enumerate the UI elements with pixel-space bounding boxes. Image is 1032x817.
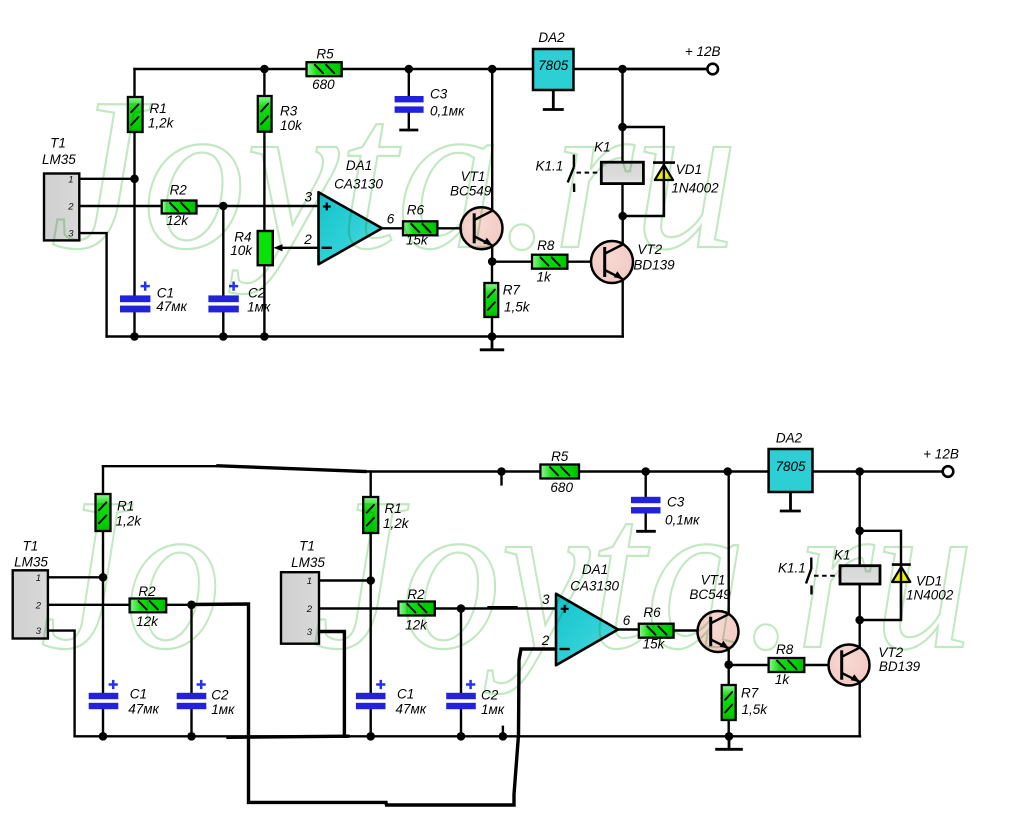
- wire stub below rail node: [500, 472, 502, 485]
- diode VD1 1N4002: [653, 163, 675, 216]
- wire C3b branch: [645, 472, 647, 532]
- DA1b minus input mark: [560, 648, 570, 650]
- node rail stub: [497, 467, 506, 476]
- wire thick ground rail overlay: [228, 736, 348, 737]
- resistor R8: [532, 255, 567, 269]
- transistor VT1 BC549: [461, 207, 503, 249]
- potentiometer R4: [258, 231, 273, 265]
- resistor R6: [403, 221, 437, 235]
- node R2 / C2: [219, 202, 228, 211]
- wire R3 to R4: [263, 132, 265, 231]
- capacitor C1: [120, 282, 150, 313]
- resistor R7: [484, 283, 498, 317]
- voltage regulator DA2 7805: [533, 49, 574, 90]
- resistor R8b: [769, 658, 805, 672]
- wire op-amp output to R6b: [618, 628, 639, 630]
- svg-text:1мк: 1мк: [481, 702, 505, 717]
- wire relay branch bottom: [859, 472, 861, 621]
- wire VT1 emitter down: [491, 247, 493, 262]
- wire R2 to op-amp pin3: [197, 205, 319, 207]
- wire R1 bottom to C1 and ground rail: [133, 132, 135, 337]
- node ground rail C1b: [366, 732, 375, 741]
- node ground rail C1: [130, 332, 139, 341]
- wire VT1b collector to rail: [728, 472, 730, 614]
- DA1 plus input mark: [323, 203, 331, 211]
- DA1 minus input mark: [322, 247, 332, 249]
- svg-text:1,5k: 1,5k: [742, 702, 769, 717]
- ground main bottom: [715, 748, 743, 751]
- wire C2a branch: [190, 605, 192, 737]
- svg-text:Joyta.ru: Joyta.ru: [312, 454, 974, 695]
- wire VT2 collector: [622, 216, 624, 244]
- relay coil K1b: [840, 566, 880, 584]
- node rail VT1b collector: [723, 467, 732, 476]
- sensor T1b LM35: [281, 572, 319, 644]
- wire R6b to VT1b base: [674, 629, 698, 631]
- transistor VT1b BC549: [698, 611, 739, 652]
- svg-text:T1: T1: [23, 539, 39, 554]
- wire stub above ground rail: [502, 727, 504, 737]
- svg-text:1мк: 1мк: [211, 702, 235, 717]
- capacitor C2: [208, 282, 238, 313]
- node relay top / diode bottom circuit: [855, 527, 864, 536]
- node VT1 emitter: [488, 257, 497, 266]
- svg-text:1мк: 1мк: [247, 299, 271, 314]
- wire C2 branch: [222, 206, 224, 337]
- wire T1a pin2 to R2a: [48, 604, 130, 606]
- R4 wiper arrowhead: [273, 244, 282, 251]
- node VT1b emitter: [724, 660, 733, 669]
- capacitor C3b: [631, 497, 661, 514]
- wire T1b pin1: [319, 579, 371, 581]
- transistor VT2 BD139: [591, 241, 633, 283]
- resistor R2b: [398, 602, 434, 616]
- resistor R1: [128, 97, 143, 132]
- node relay bottom / diode: [618, 212, 627, 221]
- wire VT1b emitter: [728, 650, 730, 665]
- wire R4 wiper to op-amp pin2: [280, 247, 319, 249]
- wire +12V rail bottom circuit: [364, 470, 943, 472]
- wire ground rail bottom: [107, 335, 623, 337]
- node R2a / C2a: [187, 601, 196, 610]
- relay coil K1: [601, 162, 643, 183]
- resistor R5: [307, 62, 342, 76]
- svg-text:47мк: 47мк: [396, 702, 427, 717]
- svg-text:DA2: DA2: [776, 431, 803, 446]
- wire top line from R1a: [103, 465, 222, 467]
- ground main: [480, 348, 504, 351]
- capacitor C2b: [446, 680, 476, 709]
- capacitor C1b: [356, 680, 386, 709]
- resistor R7b: [722, 685, 736, 720]
- relay contact K1.1b: [806, 558, 839, 595]
- resistor R2: [162, 201, 197, 214]
- wire main ground stub: [491, 337, 494, 350]
- wire +5V rail top: [135, 68, 708, 70]
- svg-text:47мк: 47мк: [128, 702, 159, 717]
- resistor R2a: [130, 599, 167, 613]
- wire T1b pin3 to ground rail (thick): [319, 632, 344, 737]
- +12V terminal bottom: [943, 466, 954, 477]
- node T1 pin1 / R1: [130, 175, 139, 184]
- node ground rail C2b: [457, 732, 466, 741]
- wire thick top overlay: [218, 466, 365, 472]
- wire VT1 collector to rail: [491, 69, 493, 210]
- wire main ground stub bottom: [728, 736, 731, 749]
- wire DA2b ground stub: [789, 492, 792, 511]
- node relay bottom / diode bottom circuit: [855, 616, 864, 625]
- wire emitter node to R8: [492, 261, 532, 263]
- wire R7 leads: [491, 262, 493, 337]
- wire ground rail bottom circuit: [75, 735, 860, 737]
- ground C3: [399, 129, 418, 132]
- wire T1a pin3 to ground rail: [48, 631, 75, 737]
- resistor R5b: [540, 465, 579, 479]
- wire R2b to op-amp pin3: [435, 607, 556, 609]
- resistor R1b: [363, 497, 378, 533]
- node ground rail C2a: [187, 732, 196, 741]
- capacitor C2a: [177, 680, 207, 709]
- op-amp DA1 CA3130: [319, 192, 383, 264]
- capacitor C1a: [89, 680, 119, 709]
- wire R4 bottom to ground rail: [263, 265, 265, 336]
- node rail relay branch bottom: [855, 467, 864, 476]
- wire C3 branch: [408, 69, 410, 130]
- node rail R3: [260, 65, 269, 74]
- wire T1b pin2 to R2b: [319, 607, 398, 609]
- wire DA2 ground stub: [552, 90, 555, 110]
- wire T1 pin2 to R2: [79, 205, 161, 207]
- wire R6 to VT1 base: [437, 227, 461, 229]
- node rail relay branch: [618, 65, 627, 74]
- op-amp DA1b CA3130: [556, 594, 618, 666]
- node ground rail R4: [260, 332, 269, 341]
- +12V terminal: [707, 64, 718, 75]
- svg-text:47мк: 47мк: [156, 299, 187, 314]
- wire T1 pin3 to ground rail: [79, 233, 106, 336]
- resistor R3: [258, 96, 272, 132]
- wire VT2b emitter to ground rail: [859, 683, 861, 736]
- wire R1a leads: [102, 466, 104, 736]
- ground DA2b: [780, 510, 801, 513]
- ground C3b: [636, 530, 656, 533]
- capacitor C3: [395, 96, 424, 113]
- wire R8 to VT2 base: [567, 261, 591, 263]
- wire diode VD1 branch: [623, 127, 664, 216]
- node ground rail stub: [499, 732, 508, 741]
- wire op-amp output to R6: [382, 227, 403, 229]
- wire VT2 emitter to ground rail: [622, 280, 624, 336]
- svg-text:DA2: DA2: [538, 30, 565, 45]
- wire R2a to node: [166, 604, 191, 606]
- wire thick loop R2a to op-amp pin2: [193, 604, 556, 805]
- sensor T1 LM35: [44, 174, 79, 241]
- wire relay branch from rail: [621, 69, 623, 216]
- wire R8b to VT2b base: [804, 664, 828, 666]
- node relay top / diode: [618, 123, 627, 132]
- wire VT2b collector: [859, 620, 861, 647]
- wire thick overlay pin3: [489, 606, 516, 609]
- wire T1 pin1 to R1 node: [79, 178, 134, 180]
- voltage regulator DA2b 7805: [769, 449, 813, 492]
- wire T1a pin1: [48, 576, 103, 578]
- wire R3 top: [263, 69, 265, 96]
- wire rail corner to R1 top: [133, 69, 135, 97]
- node T1b pin1 / R1b: [366, 576, 375, 585]
- wire R7b leads: [728, 665, 730, 737]
- wire diode VD1b branch: [860, 531, 901, 620]
- node R2b / C2b: [457, 604, 466, 613]
- sensor T1a LM35: [13, 570, 48, 638]
- ground DA2: [543, 108, 564, 111]
- svg-text:1,5k: 1,5k: [504, 300, 531, 315]
- relay contact K1.1: [568, 155, 601, 192]
- resistor R6b: [639, 624, 674, 638]
- transistor VT2b BD139: [829, 645, 870, 686]
- svg-text:Joyta.ru: Joyta.ru: [50, 54, 738, 295]
- node ground rail R7: [488, 332, 497, 341]
- diode VD1b 1N4002: [892, 565, 911, 620]
- node ground rail C1a: [99, 732, 108, 741]
- node ground rail R7b: [725, 732, 734, 741]
- wire rail to +12V terminal: [623, 68, 708, 70]
- node rail VT1 collector: [488, 65, 497, 74]
- svg-text:Jo: Jo: [40, 454, 221, 695]
- DA1b plus input mark: [561, 605, 569, 613]
- node ground rail C2: [219, 332, 228, 341]
- wire emitter node to R8b: [729, 664, 769, 666]
- wire R1b leads: [370, 472, 372, 737]
- wire C2b branch: [460, 609, 462, 737]
- node T1a pin1 / R1a: [99, 573, 108, 582]
- resistor R1a: [96, 494, 111, 531]
- node rail C3b: [641, 467, 650, 476]
- node rail C3: [405, 65, 414, 74]
